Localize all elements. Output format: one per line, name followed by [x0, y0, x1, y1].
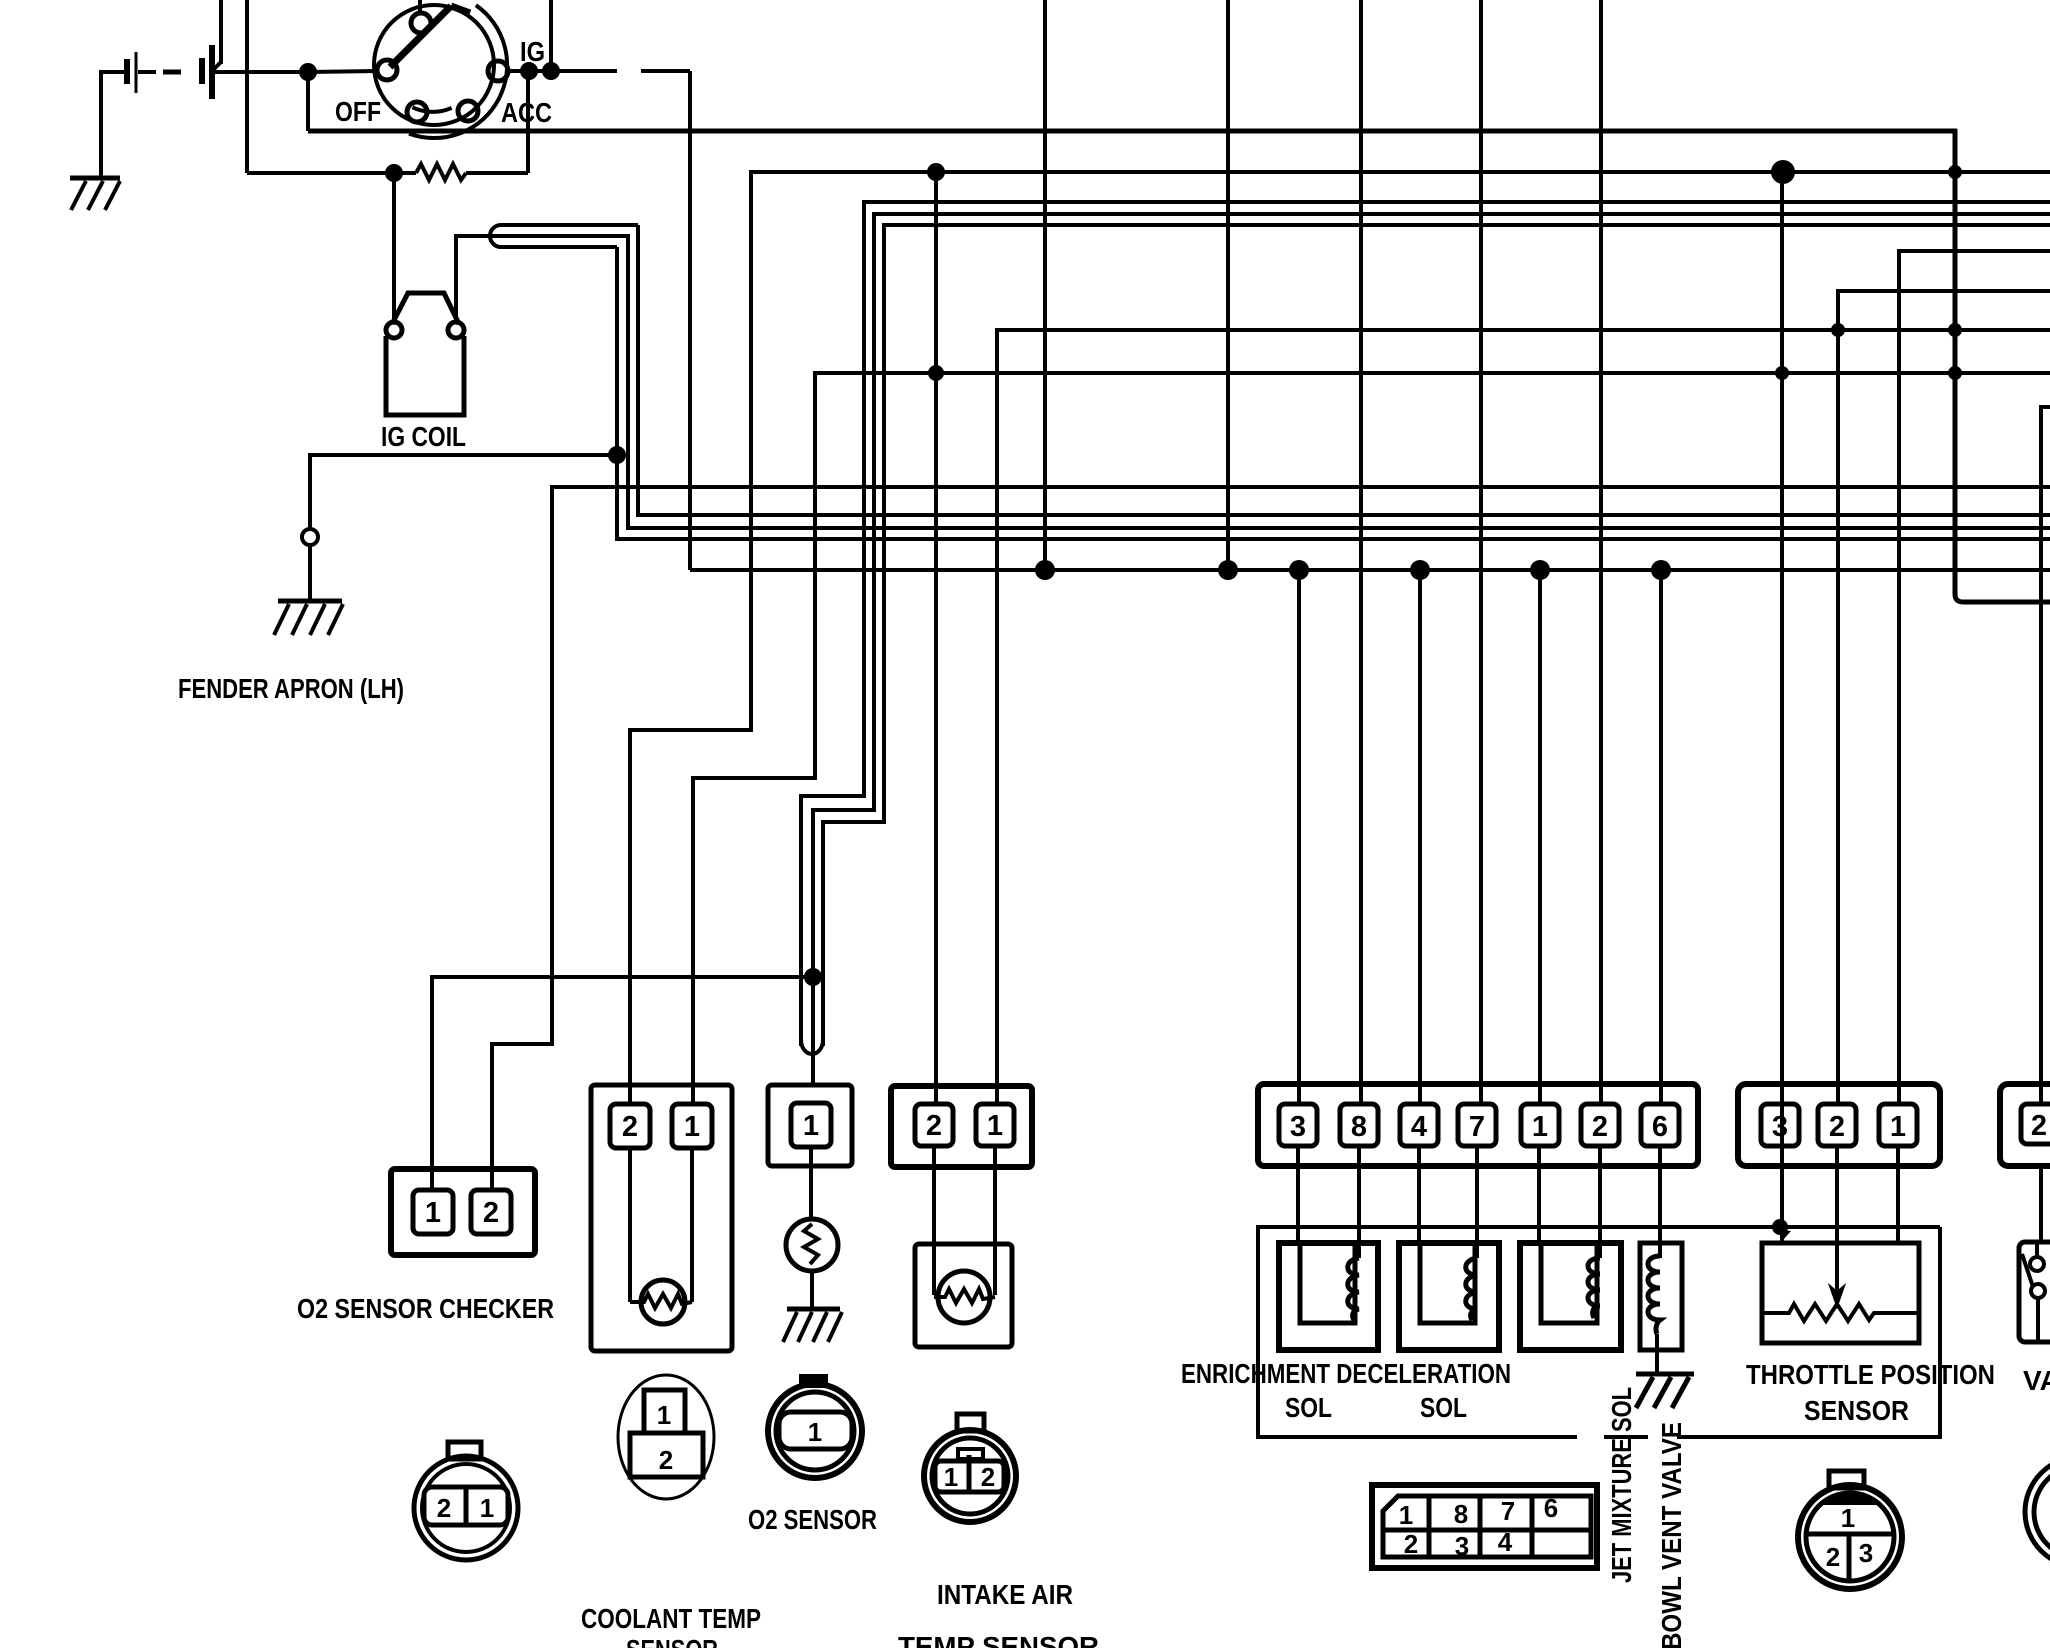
ground (battery, fender): [70, 175, 120, 210]
bowl vent valve coil: [1640, 1243, 1682, 1374]
node: junction x936 y172: [927, 163, 945, 181]
throttle position sensor connector: [1738, 1084, 1940, 1166]
ground (O2 sensor): [783, 1309, 842, 1342]
wire: sol pin3 drop: [1297, 570, 1301, 1106]
svg-text:6: 6: [1544, 1493, 1558, 1523]
ignition switch SW1: [374, 0, 508, 138]
node: junction x936 y373: [928, 365, 944, 381]
svg-text:1: 1: [425, 1197, 441, 1229]
wire: bus y487: [492, 487, 2050, 1192]
intake air temp sensor body: [915, 1244, 1012, 1347]
svg-text:1: 1: [803, 1110, 819, 1142]
oval connector (coolant mate): [618, 1375, 714, 1499]
svg-text:SOL: SOL: [1420, 1392, 1467, 1423]
ground (bowl vent valve): [1636, 1374, 1694, 1408]
svg-text:1: 1: [1841, 1503, 1855, 1533]
wire: coil primary drop: [392, 173, 396, 322]
svg-text:ENRICHMENT DECELERATION: ENRICHMENT DECELERATION: [1181, 1358, 1511, 1389]
svg-text:2: 2: [1592, 1111, 1608, 1143]
node: junction x1838 y330: [1831, 323, 1845, 337]
TPS potentiometer body: [1762, 1243, 1919, 1343]
svg-text:7: 7: [1501, 1496, 1515, 1526]
wire: IG feed from top: [549, 0, 553, 71]
enrichment/deceleration solenoid connector: [1258, 1084, 1698, 1166]
wire: fender apron ground wire: [310, 455, 617, 529]
svg-text:3: 3: [1290, 1111, 1306, 1143]
svg-text:INTAKE AIR: INTAKE AIR: [937, 1579, 1073, 1610]
node: TPS pin3 junction + arrow: [1772, 1219, 1791, 1240]
ground (fender apron LH): [274, 545, 343, 635]
svg-text:1: 1: [944, 1462, 958, 1492]
node: ground wire junction: [608, 446, 626, 464]
svg-text:TEMP SENSOR: TEMP SENSOR: [898, 1631, 1099, 1648]
node: IG junction 1: [520, 62, 538, 80]
wire: bus y570 with taps: [690, 568, 2050, 572]
wire: to ignition switch: [308, 71, 379, 72]
wire: sol pin4 drop: [1418, 570, 1422, 1106]
node: bus570 x1045: [1035, 560, 1055, 580]
svg-text:SENSOR: SENSOR: [1804, 1395, 1909, 1426]
svg-text:3: 3: [1772, 1111, 1788, 1143]
node: bus570 x1299: [1289, 560, 1309, 580]
wire: intake pin2 drop: [934, 172, 938, 1106]
svg-text:O2 SENSOR: O2 SENSOR: [748, 1504, 877, 1535]
wire: top drop x1481 to pin7: [1479, 0, 1483, 1106]
svg-text:1: 1: [808, 1417, 822, 1447]
svg-text:1: 1: [480, 1493, 494, 1523]
svg-text:2: 2: [483, 1197, 499, 1229]
wire: top drop x1045: [1043, 0, 1047, 570]
ground terminal circle: [302, 529, 318, 545]
wire: checker pin1 wire y977: [432, 977, 813, 1192]
wire: ACC bus corner to right component: [1955, 129, 2050, 1106]
svg-text:THROTTLE POSITION: THROTTLE POSITION: [1746, 1359, 1995, 1390]
wire: IG drop x690: [688, 71, 692, 570]
battery B1: [101, 45, 304, 175]
wire: ACC bus y131: [308, 129, 1957, 134]
wire: coil plus to bus 528: [456, 236, 2050, 528]
node: bus570 x1661: [1651, 560, 1671, 580]
node: junction x1955 y373: [1948, 366, 1962, 380]
svg-text:O2 SENSOR CHECKER: O2 SENSOR CHECKER: [297, 1293, 554, 1324]
svg-text:4: 4: [1498, 1527, 1513, 1557]
svg-text:4: 4: [1411, 1111, 1427, 1143]
node: junction x1784 y172: [1771, 160, 1795, 184]
round connector (intake mate): [924, 1414, 1016, 1522]
svg-text:2: 2: [1829, 1111, 1845, 1143]
svg-text:FENDER APRON (LH): FENDER APRON (LH): [178, 673, 404, 704]
wire: top drop x1228: [1226, 0, 1230, 570]
svg-text:VAL: VAL: [2023, 1365, 2050, 1396]
svg-text:2: 2: [926, 1110, 942, 1142]
O2 sensor connector: [768, 1085, 852, 1166]
enclosure box (solenoids + TPS): [1258, 1227, 1940, 1437]
wire: intake internal: [934, 1146, 995, 1295]
svg-text:2: 2: [622, 1111, 638, 1143]
svg-text:1: 1: [1890, 1111, 1906, 1143]
svg-text:1: 1: [1532, 1111, 1548, 1143]
wire: battery feed vertical: [213, 0, 221, 70]
wire: coolant internal: [630, 1148, 692, 1302]
svg-text:1: 1: [1399, 1500, 1413, 1530]
node: bus570 x1540: [1530, 560, 1550, 580]
wire: TPS pin3 drop: [1780, 172, 1784, 1227]
node: junction x1955 y172: [1948, 165, 1962, 179]
svg-text:IG COIL: IG COIL: [381, 421, 466, 452]
round connector (O2 mate): [768, 1374, 862, 1478]
node: IG junction 2: [542, 62, 560, 80]
wire: O2 element to ground: [810, 1271, 814, 1309]
solenoid SOL1 (enrichment): [1279, 1243, 1378, 1350]
O2 sensor element: [786, 1219, 838, 1271]
svg-text:7: 7: [1469, 1111, 1485, 1143]
wire: O2 shield capsule cap: [801, 1040, 823, 1054]
round connector (right, partial): [2025, 1457, 2050, 1567]
svg-text:IG: IG: [520, 36, 545, 67]
wire: ACC leg: [308, 71, 528, 173]
svg-text:SOL: SOL: [1285, 1392, 1332, 1423]
svg-text:3: 3: [1859, 1538, 1873, 1568]
svg-text:BOWL VENT VALVE: BOWL VENT VALVE: [1656, 1422, 1687, 1648]
wire: bus y330: [997, 330, 2050, 1106]
resistor R1: [247, 0, 528, 180]
wire: TPS pin wires: [1782, 1146, 1898, 1292]
svg-text:6: 6: [1652, 1111, 1668, 1143]
node: junction on O2 wire: [804, 968, 822, 986]
svg-text:SENSOR: SENSOR: [626, 1634, 718, 1648]
wire: bus y291 TPS pin2: [1838, 291, 2050, 1106]
svg-text:JET MIXTURE SOL: JET MIXTURE SOL: [1606, 1387, 1637, 1583]
svg-text:2: 2: [437, 1493, 451, 1523]
wire: top drop x1601 to pin2: [1599, 0, 1603, 1106]
round connector (TPS mate): [1798, 1471, 1902, 1589]
wire: O2 to sensor element: [809, 1147, 813, 1220]
node: junction x1955 y330: [1948, 323, 1962, 337]
IG coil T1: [386, 293, 464, 415]
O2 sensor checker connector: [391, 1169, 535, 1255]
node: bus570 x1228: [1218, 560, 1238, 580]
intake air temp sensor connector: [891, 1086, 1032, 1167]
wire: bus y251 TPS pin1: [1899, 251, 2050, 1106]
coolant temp sensor connector: [591, 1085, 732, 1351]
wire: bus y172: [630, 172, 2050, 1106]
svg-text:3: 3: [1455, 1531, 1469, 1561]
node: junction x1784 y373: [1775, 366, 1789, 380]
wire: sol pin1 drop: [1538, 570, 1542, 1106]
wire: sol pin6 drop: [1659, 570, 1663, 1106]
svg-text:2: 2: [981, 1462, 995, 1492]
svg-text:COOLANT TEMP: COOLANT TEMP: [581, 1603, 761, 1634]
svg-text:2: 2: [1826, 1542, 1840, 1572]
thermistor (coolant): [630, 1280, 692, 1324]
wire: sol pins to coils: [1298, 1146, 1660, 1258]
node: resistor junction: [385, 164, 403, 182]
wire: bus y373: [693, 373, 2050, 1106]
svg-text:OFF: OFF: [335, 96, 381, 127]
svg-text:2: 2: [2031, 1110, 2047, 1142]
arrow (TPS wiper): [1830, 1286, 1844, 1306]
svg-text:1: 1: [684, 1111, 700, 1143]
wire: VSV pin to switch: [2039, 1166, 2043, 1242]
svg-text:2: 2: [659, 1445, 673, 1475]
svg-text:1: 1: [657, 1400, 671, 1430]
wire: hairpin loop to buses 515/539: [490, 225, 2050, 539]
svg-text:8: 8: [1454, 1499, 1468, 1529]
node: battery junction: [299, 63, 317, 81]
wire: bus y214: [813, 214, 2050, 1085]
wire: bus y225: [823, 225, 2050, 1046]
wire: IG line to right with gap: [559, 69, 690, 73]
VSV switch body: [2019, 1242, 2050, 1342]
wire: switch to IG dots: [508, 69, 563, 73]
VSV connector (right edge): [2000, 1084, 2050, 1166]
round connector (O2 checker mate): [414, 1442, 518, 1560]
wire: top drop x1361 to pin8: [1359, 0, 1363, 1106]
8-pin connector (sol mate): [1372, 1485, 1597, 1568]
solenoid SOL3 (jet mixture): [1520, 1243, 1621, 1350]
svg-text:8: 8: [1351, 1111, 1367, 1143]
svg-text:2: 2: [1404, 1529, 1418, 1559]
node: bus570 x1420: [1410, 560, 1430, 580]
wire: bus y202: [801, 202, 2050, 1046]
solenoid SOL2 (deceleration): [1399, 1243, 1499, 1350]
svg-text:1: 1: [987, 1110, 1003, 1142]
